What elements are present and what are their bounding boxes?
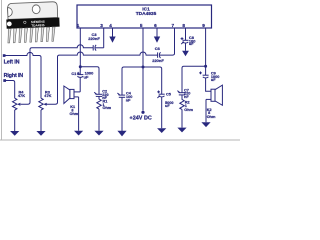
resistor R2 1 Ohm <box>180 95 194 112</box>
pin numbers 1 3 4 5 6 7 8 9 <box>77 23 205 28</box>
svg-text:uF: uF <box>84 74 89 79</box>
wire Left IN <box>4 52 41 98</box>
band white dot <box>7 21 12 26</box>
node Left IN terminal <box>3 54 6 57</box>
node pin1 output junction <box>79 65 82 68</box>
potentiometer R3 47K <box>39 56 58 110</box>
svg-text:220nF: 220nF <box>88 36 100 41</box>
svg-text:5: 5 <box>140 23 143 28</box>
svg-text:Left IN: Left IN <box>4 60 20 66</box>
ground pin4 <box>109 28 115 43</box>
potentiometer R4 47K <box>13 49 31 110</box>
svg-text:Ohm: Ohm <box>103 106 112 110</box>
ground K1 <box>74 97 83 136</box>
svg-text:nF: nF <box>126 99 131 103</box>
ground K2 <box>201 99 210 127</box>
svg-text:47K: 47K <box>18 93 25 98</box>
wire Right IN <box>5 81 15 99</box>
ground R1 <box>94 109 103 136</box>
svg-text:C5: C5 <box>166 92 171 96</box>
ground R3 <box>36 110 45 136</box>
svg-text:Ohm: Ohm <box>70 112 79 116</box>
wire pin7 down <box>174 28 176 54</box>
capacitor C1 1000uF <box>71 67 93 92</box>
supply rail <box>122 67 162 95</box>
ground pin6 <box>154 28 160 43</box>
ground R4 <box>10 110 19 136</box>
svg-text:3: 3 <box>100 23 103 28</box>
node pin9 output junction <box>204 65 207 68</box>
wire pin3 down <box>103 28 105 48</box>
wire C9 to speaker K2 <box>206 78 211 92</box>
IC IC1 TDA4935 <box>77 5 212 28</box>
svg-text:TDA4935: TDA4935 <box>31 23 45 28</box>
capacitor C9 1000uF <box>199 72 219 83</box>
speaker K1 <box>64 86 80 116</box>
ground R2 <box>177 109 186 132</box>
svg-text:uF: uF <box>211 78 216 82</box>
node supply rail junction <box>142 66 145 69</box>
svg-text:uF: uF <box>165 104 170 108</box>
capacitor C7 220nF <box>177 88 190 99</box>
svg-text:220nF: 220nF <box>152 58 164 63</box>
capacitor C3 <box>88 32 100 51</box>
svg-text:C6: C6 <box>155 46 161 51</box>
capacitor C6 <box>152 46 164 63</box>
svg-text:9: 9 <box>202 23 205 28</box>
svg-text:4: 4 <box>109 23 112 28</box>
black label band <box>6 17 59 28</box>
svg-text:uF: uF <box>189 41 194 46</box>
svg-text:8: 8 <box>182 23 185 28</box>
svg-text:Right IN: Right IN <box>4 73 24 79</box>
capacitor C5 1000uF <box>157 91 173 109</box>
wire pin5 +24V rail down <box>142 28 144 111</box>
capacitor C8 100uF <box>181 35 196 46</box>
speaker K2 <box>206 85 222 119</box>
wire pin1 node to C2 branch <box>80 67 99 95</box>
node +24V terminal <box>141 111 144 114</box>
wire pin9 node to C7 branch <box>182 66 206 92</box>
svg-text:1: 1 <box>77 23 80 28</box>
svg-text:nF: nF <box>184 95 189 99</box>
svg-text:7: 7 <box>171 23 174 28</box>
wire pin1 down <box>79 28 81 67</box>
capacitor C2 220nF <box>94 90 108 101</box>
IC package illustration (TDA4935 SIL-9) <box>6 2 60 43</box>
left notch <box>8 7 13 16</box>
upper input line: R4 wiper to C3 to pin3 <box>30 45 93 50</box>
wire pin8 down <box>185 28 187 40</box>
svg-text:6: 6 <box>154 23 157 28</box>
capacitor C4 100nF <box>117 92 132 103</box>
node Right IN terminal <box>3 79 6 82</box>
resistor R1 1 Ohm <box>97 96 112 110</box>
ground C4 <box>117 97 126 136</box>
svg-text:Ohm: Ohm <box>184 108 193 112</box>
package body <box>7 2 57 20</box>
svg-text:C1: C1 <box>71 71 77 76</box>
mounting hole <box>32 5 40 14</box>
svg-text:+24V DC: +24V DC <box>130 116 152 122</box>
svg-text:TDA4935: TDA4935 <box>136 11 157 17</box>
svg-text:47K: 47K <box>44 93 51 98</box>
page border <box>0 0 240 140</box>
ground C5 <box>157 97 166 133</box>
legs <box>7 27 55 43</box>
wire pin9 down <box>205 28 207 75</box>
lower input line: R3 wiper to C6 to pin7 <box>58 52 158 57</box>
svg-text:Ohm: Ohm <box>207 115 216 119</box>
ground C8 <box>182 43 189 56</box>
